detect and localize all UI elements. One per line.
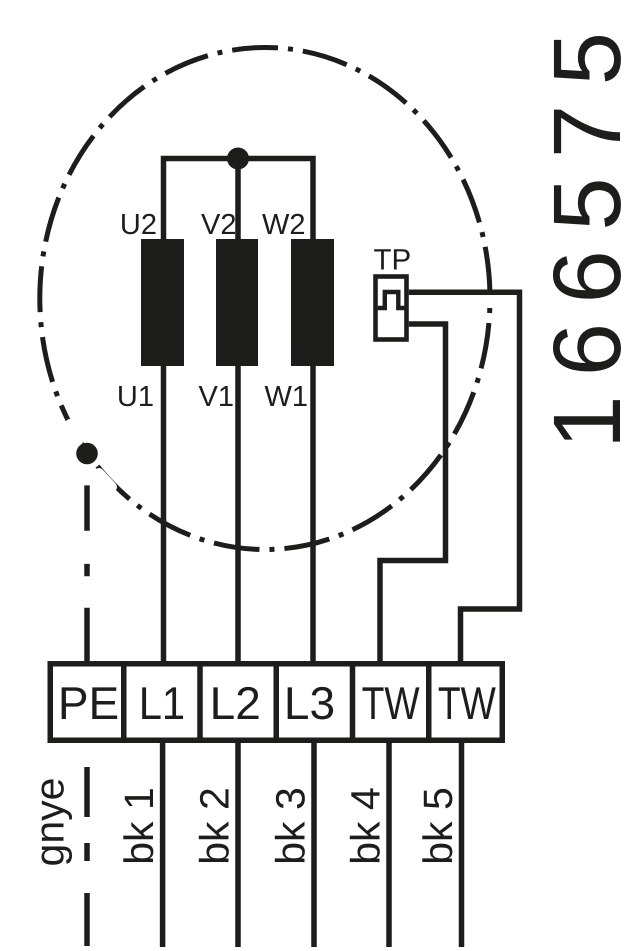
wire W1 to terminal L3 [310, 366, 316, 663]
wire V1 to terminal L2 [235, 366, 241, 663]
dash-dot PE line below terminal (gnye) [84, 767, 90, 946]
svg-text:bk 5: bk 5 [415, 787, 461, 865]
svg-text:TW: TW [438, 677, 496, 729]
wire bk 2 below L2 [235, 743, 241, 947]
wire U1 to terminal L1 [161, 366, 167, 663]
svg-text:L3: L3 [284, 677, 335, 729]
terminal divider PE/L1 [121, 664, 127, 741]
winding W (W2-W1) [291, 239, 334, 366]
thermal contact TP box [376, 277, 407, 340]
svg-text:bk 3: bk 3 [267, 787, 313, 865]
wire top bus U2-W2 [164, 159, 314, 240]
svg-text:U2: U2 [120, 209, 157, 241]
junction dot star point [227, 148, 249, 170]
svg-text:PE: PE [58, 677, 119, 729]
svg-text:TP: TP [374, 244, 412, 277]
wire bk 5 below TW2 [459, 743, 465, 947]
winding V (V2-V1) [216, 239, 258, 366]
wire TP top to TW2 [409, 292, 520, 663]
terminal divider L2/L3 [274, 664, 280, 741]
terminal divider L1/L2 [197, 664, 203, 741]
svg-text:V1: V1 [199, 381, 234, 413]
wire TP bottom to TW1 [380, 324, 446, 663]
svg-text:bk 4: bk 4 [342, 787, 388, 865]
terminal divider TW/TW [426, 664, 432, 741]
gap in motor boundary after PE dot [99, 473, 112, 487]
svg-text:W2: W2 [262, 209, 306, 241]
wire V2 to bus [235, 159, 241, 240]
svg-text:V2: V2 [201, 209, 236, 241]
gap in motor boundary before PE dot [70, 424, 78, 441]
svg-text:bk 1: bk 1 [116, 787, 162, 865]
terminal divider L3/TW [350, 664, 356, 741]
wire bk 4 below TW1 [386, 743, 392, 947]
svg-text:L2: L2 [210, 677, 261, 729]
motor boundary dash-dot ellipse [40, 48, 490, 550]
svg-text:TW: TW [362, 677, 420, 729]
svg-text:166575: 166575 [534, 13, 641, 449]
wire bk 1 below L1 [160, 743, 166, 947]
thermal contact TP symbol [378, 292, 405, 308]
winding U (U2-U1) [141, 239, 184, 366]
svg-text:bk 2: bk 2 [191, 787, 237, 865]
dash-dot PE junction dot on motor frame [76, 443, 98, 465]
svg-text:U1: U1 [117, 381, 154, 413]
svg-text:gnye: gnye [27, 778, 73, 867]
wire bk 3 below L3 [311, 743, 317, 947]
svg-text:L1: L1 [139, 677, 185, 729]
dash-dot PE line above terminal [84, 485, 90, 661]
svg-text:W1: W1 [265, 381, 309, 413]
terminal block outline [50, 664, 502, 741]
